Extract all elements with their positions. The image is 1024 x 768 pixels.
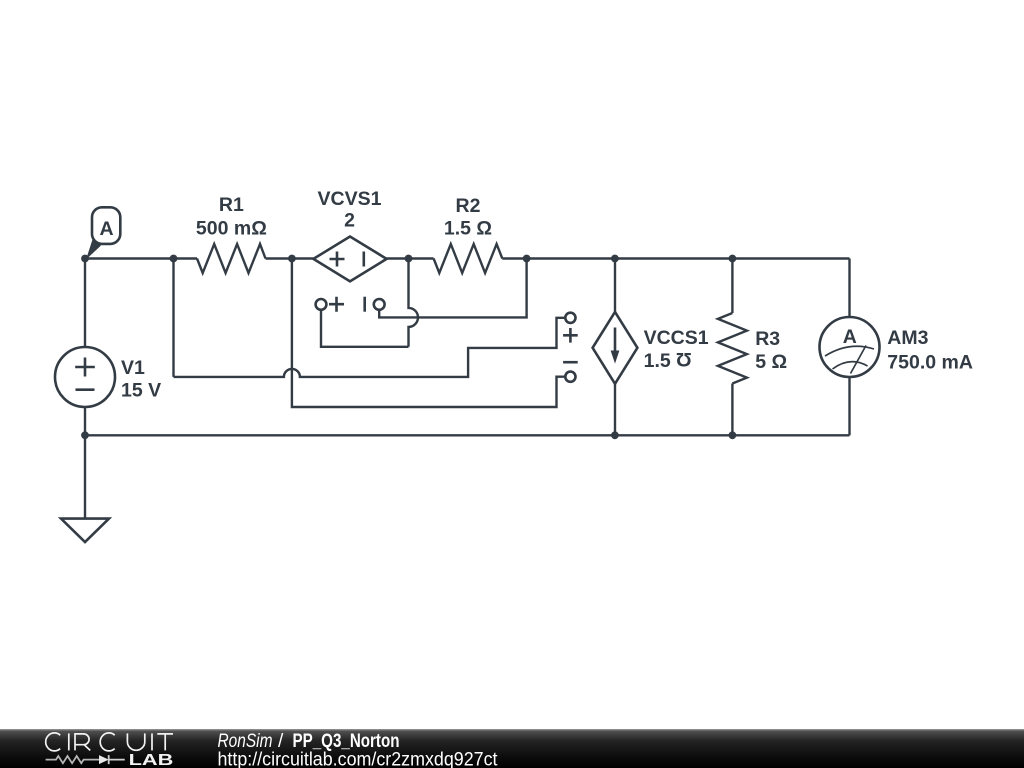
wire VCCS1 top lead (614, 259, 616, 312)
svg-text:1.5 Ω: 1.5 Ω (444, 218, 492, 240)
wire R3 top lead (731, 259, 733, 314)
resistor R2 (434, 244, 503, 273)
wire V1 top lead (84, 259, 86, 348)
wire top rail left segment (85, 257, 197, 259)
junction dot top rail x=732.4 (729, 255, 737, 263)
wire vertical with hop over y=317.4 (409, 259, 419, 347)
CircuitLab logo diode (99, 755, 109, 764)
label R1 (196, 194, 267, 240)
junction dot top rail x=614.9 (611, 255, 619, 263)
wire ground stem (84, 435, 86, 518)
wire VCVS1 minus-sense net (379, 259, 526, 318)
ground (61, 519, 109, 542)
dependent source VCVS1 (313, 237, 386, 282)
VCCS1 plus sense terminal (563, 313, 578, 343)
wire VCCS1 plus-sense net with hop over x=291.9 (174, 318, 566, 377)
svg-text:A: A (843, 326, 857, 348)
junction dot bottom rail x=614.9 (611, 431, 619, 439)
label AM3 (887, 327, 973, 373)
VCVS1 plus sense terminal (316, 297, 344, 312)
junction dot top rail x=173.5 (170, 255, 178, 263)
svg-text:R1: R1 (219, 194, 244, 216)
svg-text:VCCS1: VCCS1 (644, 327, 709, 349)
label R2 (444, 195, 492, 240)
wire top rail right segment (502, 257, 849, 259)
VCVS1 minus sense terminal (365, 297, 385, 312)
svg-text:2: 2 (344, 210, 355, 232)
label VCCS1 (644, 327, 709, 372)
svg-text:R2: R2 (456, 195, 481, 217)
wire V1 bottom lead (84, 407, 86, 435)
wire AM3 top lead (848, 259, 850, 318)
wire bottom rail (85, 434, 850, 436)
junction dot top rail x=408.5 (405, 255, 413, 263)
wire VCCS1 minus-sense net from node B (292, 259, 566, 408)
CircuitLab logo CIRCUIT (46, 733, 173, 751)
svg-text:R3: R3 (755, 328, 780, 350)
wire VCVS1 plus-sense net (321, 310, 409, 347)
label VCVS1 (318, 188, 382, 232)
junction dot top rail x=291.9 (288, 255, 296, 263)
svg-text:750.0 mA: 750.0 mA (887, 351, 973, 373)
node A junction dot (81, 255, 89, 263)
svg-text:AM3: AM3 (887, 327, 928, 349)
dependent source VCCS1 (593, 312, 638, 384)
svg-text:5 Ω: 5 Ω (755, 351, 787, 373)
wire top rail between R1 and VCVS1 (266, 257, 314, 259)
svg-text:A: A (100, 218, 114, 240)
svg-text:15 V: 15 V (121, 379, 161, 401)
resistor R1 (197, 244, 266, 273)
node A flag (86, 207, 120, 259)
CircuitLab logo squiggle resistor (46, 756, 99, 763)
svg-text:VCVS1: VCVS1 (318, 188, 382, 210)
label R3 (755, 328, 787, 373)
svg-text:Ω: Ω (676, 348, 692, 370)
label V1 (121, 357, 161, 401)
svg-text:V1: V1 (121, 357, 145, 379)
wire top rail between VCVS1 and R2 (387, 257, 434, 259)
ammeter AM3 (820, 317, 880, 377)
voltage source V1 (55, 347, 115, 407)
junction dot top rail x=526.6 (523, 255, 531, 263)
wire VCCS1 bottom lead (614, 384, 616, 436)
junction dot bottom rail x=732.4 (729, 431, 737, 439)
VCCS1 minus sense terminal (563, 362, 578, 382)
wire branch down at x=173.5 (172, 259, 174, 377)
svg-text:LAB: LAB (129, 752, 174, 768)
wire AM3 bottom lead (848, 377, 850, 435)
resistor R3 (718, 313, 747, 384)
wire R3 bottom lead (731, 384, 733, 436)
svg-text:1.5: 1.5 (644, 350, 671, 372)
svg-text:http://circuitlab.com/cr2zmxdq: http://circuitlab.com/cr2zmxdq927ct (218, 750, 499, 768)
junction dot bottom rail x=85 (81, 431, 89, 439)
svg-text:500 mΩ: 500 mΩ (196, 218, 267, 240)
